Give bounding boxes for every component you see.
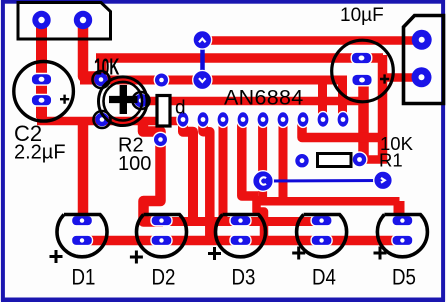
pad: U1 pin 5 xyxy=(257,112,269,128)
plus mark D4 xyxy=(292,247,305,260)
trimmer VR1 pad rings xyxy=(93,71,110,88)
wire: lower diode rail D1-D5 xyxy=(80,236,407,246)
pad: C2 positive xyxy=(31,74,52,86)
diode D2 outline xyxy=(137,215,187,257)
pad: connector J1 pin A xyxy=(32,11,50,29)
pad: via right end of blue jumper xyxy=(374,171,393,190)
wire: drop from y201 bar to D5 upper pad xyxy=(394,201,405,221)
wire: bar y201 across to D5 drop xyxy=(256,197,400,206)
pad: trimmer VR1 bottom-left xyxy=(95,113,109,127)
pad: R1 right xyxy=(352,152,367,167)
pad: C1 10uF upper xyxy=(351,52,372,64)
pad: D5 cathode xyxy=(392,215,413,225)
wire: bar y40.5 from via pad to right connector upper pad xyxy=(202,36,422,45)
wire: corner y77.5 to right connector lower pad xyxy=(378,73,422,82)
plus mark D2 xyxy=(130,251,143,264)
svg-text:d: d xyxy=(175,98,186,119)
pad: U1 pin 4 xyxy=(237,112,249,128)
svg-text:D2: D2 xyxy=(152,266,176,290)
wire: IC pin4 down elbow right xyxy=(242,123,258,196)
pad: right connector upper xyxy=(412,30,432,50)
trimmer VR1 inner ring xyxy=(104,82,143,121)
capacitor C1 plus mark xyxy=(380,74,389,83)
resistor R2 body xyxy=(157,96,170,127)
wire: vertical 10uF pad2 down to R1 right pad xyxy=(358,80,369,160)
svg-text:D5: D5 xyxy=(392,266,416,290)
wire: IC pin3 straight down to D3 upper pad xyxy=(219,123,228,222)
wire: bar y58 across to 10uF pad1 corner xyxy=(96,53,383,63)
trimmer VR1 outer ring xyxy=(99,77,148,126)
wire: bar y80 from pad B elbow to pin9 drop xyxy=(80,76,346,85)
connector J2 outline right xyxy=(404,16,444,104)
svg-text:2.2µF: 2.2µF xyxy=(14,142,66,164)
wire: bottom bar y121 from C2 to IC pad1 xyxy=(37,117,184,126)
svg-text:D3: D3 xyxy=(232,266,256,290)
wire: zigzag from y196 down to lower rail right of D3 pad xyxy=(257,196,265,241)
diode D1 outline xyxy=(57,215,107,257)
pad: U1 pin 7 xyxy=(297,112,309,128)
wire: IC pin7 dogleg to R1 right vertical xyxy=(302,121,382,138)
svg-text:100: 100 xyxy=(118,153,151,175)
wire: stub trimmer top-left pad up to y58 bar xyxy=(99,58,107,80)
pad: U1 pin 6 xyxy=(277,112,289,128)
svg-text:D1: D1 xyxy=(72,266,96,290)
svg-text:10µF: 10µF xyxy=(340,5,384,26)
pad: R1 left xyxy=(295,153,310,168)
plus mark D1 xyxy=(50,250,63,263)
pad: R2 bottom xyxy=(153,132,167,146)
pad: D3 anode xyxy=(230,235,251,245)
pad: U1 pin 2 xyxy=(197,112,209,128)
plus mark D3 xyxy=(208,247,221,260)
capacitor C2 plus mark xyxy=(60,95,69,104)
capacitor C1 10uF outline xyxy=(332,40,394,102)
trimmer VR1 screw cross xyxy=(109,96,138,103)
wire: drop to IC pin 9 xyxy=(338,76,347,120)
wire: R1 right pad stub xyxy=(359,155,387,164)
wire: blue jumper between via pads above diodes xyxy=(263,179,383,183)
wire: IC pin2 jog down to lower diode rail xyxy=(203,123,210,241)
pad: C2 negative xyxy=(31,94,52,106)
pad: connector J1 pin B xyxy=(74,11,92,29)
wire: bar y101 from trimmer right pad to 10uF pad2 vertical xyxy=(139,97,365,106)
svg-text:AN6884: AN6884 xyxy=(224,86,304,110)
pad: D4 anode xyxy=(311,235,332,245)
wire: drop to IC pin 8 xyxy=(318,84,327,120)
diode D3 outline xyxy=(216,215,266,257)
pad: D2 anode xyxy=(151,235,172,245)
wire: blue jumper between via pads near top xyxy=(200,40,205,80)
wire: jog from y121 bar through R2 lower pad down into D2 upper pad xyxy=(143,117,163,222)
pad: via left end of blue jumper xyxy=(253,171,274,192)
pad: U1 pin 8 xyxy=(317,112,329,128)
wire: IC pin1 jog down to upper diode rail xyxy=(183,123,193,222)
wire: right vertical from y58 bar down to R1 right pad xyxy=(378,55,388,160)
wire: pad A down through C2 pads xyxy=(36,16,47,118)
diode D4 outline xyxy=(297,215,347,257)
pad: U1 pin 3 xyxy=(217,112,229,128)
pad: D5 anode xyxy=(392,235,413,245)
pad: C1 10uF lower xyxy=(352,74,373,86)
pad: R2 top xyxy=(154,73,168,87)
pad: D1 cathode xyxy=(72,215,93,225)
resistor R1 body xyxy=(318,154,352,167)
wire: upper diode rail D2-D4 xyxy=(146,217,327,226)
pad: via with up chevron xyxy=(193,31,212,50)
wire: IC pin5 down through via pad xyxy=(258,123,267,202)
pad: U1 pin 9 xyxy=(337,112,349,128)
pad: right connector lower xyxy=(412,67,432,87)
wire: pad B elbow to trimmer top-left pad xyxy=(83,16,102,77)
svg-text:D4: D4 xyxy=(312,266,336,290)
pad: D2 cathode xyxy=(151,215,172,225)
svg-text:R1: R1 xyxy=(379,150,403,171)
pad: D4 cathode xyxy=(311,215,332,225)
wire: D1 feeder from y121 bar xyxy=(78,123,89,221)
pad: D1 anode xyxy=(72,235,93,245)
plus mark D5 xyxy=(374,247,387,260)
capacitor C2 outline xyxy=(14,62,74,122)
pad: via with down chevron xyxy=(193,70,212,89)
pad: trimmer VR1 top-left xyxy=(94,73,108,87)
connector J1 outline top-left xyxy=(18,3,111,40)
diode D5 outline xyxy=(377,215,427,257)
wire: IC pin6 down to y201 bar xyxy=(279,123,288,202)
pads: IC U1 AN6884 pin 1 xyxy=(177,112,189,128)
pad: trimmer VR1 right xyxy=(134,94,148,108)
svg-text:10K: 10K xyxy=(94,55,120,80)
pad: D3 cathode xyxy=(230,215,251,225)
